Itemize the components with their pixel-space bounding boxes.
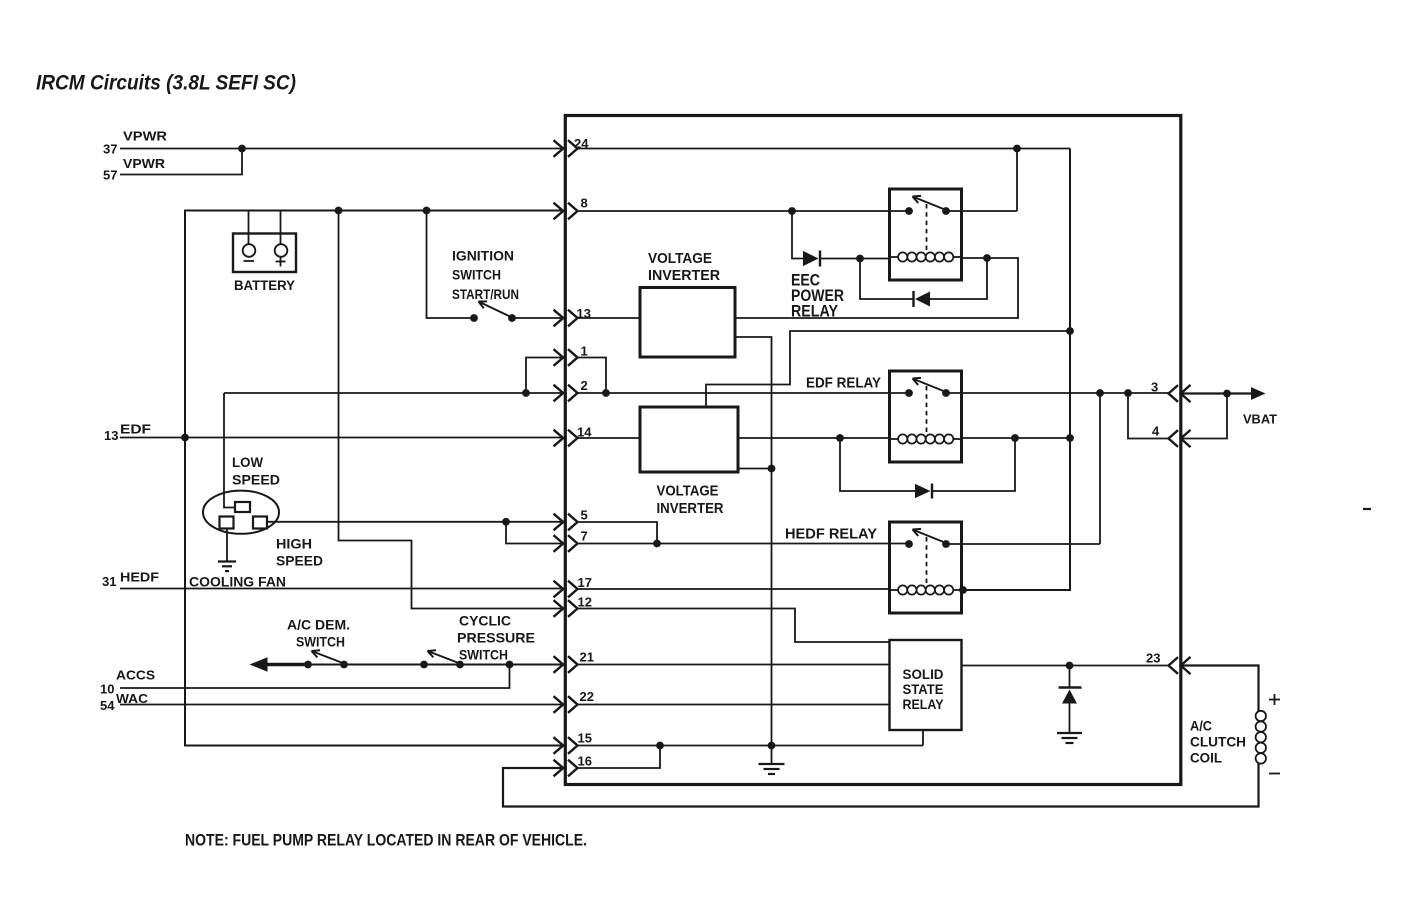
svg-text:17: 17 (578, 575, 592, 590)
svg-text:EDF RELAY: EDF RELAY (806, 376, 881, 392)
svg-text:14: 14 (577, 425, 592, 440)
svg-text:SWITCH: SWITCH (296, 634, 345, 650)
svg-text:13: 13 (577, 306, 591, 321)
svg-text:16: 16 (578, 754, 592, 769)
svg-text:LOW: LOW (232, 454, 264, 470)
svg-text:HEDF RELAY: HEDF RELAY (785, 527, 877, 543)
svg-text:4: 4 (1152, 424, 1160, 439)
svg-text:COIL: COIL (1190, 751, 1222, 766)
svg-text:2: 2 (581, 378, 588, 393)
svg-text:PRESSURE: PRESSURE (457, 630, 535, 646)
svg-text:12: 12 (578, 595, 592, 610)
svg-text:SPEED: SPEED (276, 553, 323, 569)
svg-text:10: 10 (100, 682, 114, 697)
svg-text:15: 15 (578, 731, 592, 746)
svg-text:1: 1 (581, 344, 588, 359)
svg-text:RELAY: RELAY (791, 303, 838, 321)
svg-text:START/RUN: START/RUN (452, 286, 519, 302)
svg-text:VPWR: VPWR (123, 129, 168, 144)
svg-text:HIGH: HIGH (276, 536, 312, 552)
svg-text:13: 13 (104, 428, 118, 443)
svg-text:WAC: WAC (116, 691, 149, 706)
svg-text:SOLID: SOLID (903, 666, 944, 682)
svg-text:CYCLIC: CYCLIC (459, 613, 511, 629)
svg-text:SWITCH: SWITCH (459, 647, 508, 663)
svg-text:57: 57 (103, 168, 117, 183)
svg-text:8: 8 (581, 196, 588, 211)
svg-text:7: 7 (581, 529, 588, 544)
svg-text:INVERTER: INVERTER (648, 267, 720, 284)
svg-text:IRCM Circuits (3.8L SEFI SC): IRCM Circuits (3.8L SEFI SC) (36, 72, 296, 95)
svg-text:STATE: STATE (903, 681, 944, 697)
svg-text:HEDF: HEDF (120, 570, 159, 585)
svg-text:VOLTAGE: VOLTAGE (657, 483, 719, 500)
svg-text:INVERTER: INVERTER (657, 500, 724, 517)
svg-text:VOLTAGE: VOLTAGE (648, 250, 712, 267)
svg-text:3: 3 (1151, 380, 1158, 395)
svg-text:RELAY: RELAY (903, 696, 945, 712)
svg-text:37: 37 (103, 142, 117, 157)
svg-text:23: 23 (1146, 651, 1160, 666)
svg-text:A/C DEM.: A/C DEM. (287, 617, 350, 633)
svg-text:5: 5 (581, 508, 588, 523)
svg-text:COOLING FAN: COOLING FAN (189, 574, 286, 590)
svg-text:IGNITION: IGNITION (452, 248, 514, 264)
svg-text:22: 22 (580, 689, 594, 704)
svg-text:EDF: EDF (120, 422, 151, 437)
svg-text:CLUTCH: CLUTCH (1190, 735, 1246, 750)
svg-text:SWITCH: SWITCH (452, 267, 501, 283)
svg-text:VPWR: VPWR (123, 156, 166, 171)
svg-text:21: 21 (580, 650, 594, 665)
svg-text:24: 24 (574, 136, 589, 151)
svg-text:A/C: A/C (1190, 719, 1212, 734)
svg-text:31: 31 (102, 574, 116, 589)
svg-text:54: 54 (100, 698, 115, 713)
svg-text:BATTERY: BATTERY (234, 278, 295, 293)
svg-text:NOTE: FUEL PUMP RELAY LOCATED: NOTE: FUEL PUMP RELAY LOCATED IN REAR OF… (185, 831, 587, 850)
svg-text:SPEED: SPEED (232, 472, 280, 488)
svg-text:ACCS: ACCS (116, 668, 155, 683)
svg-text:VBAT: VBAT (1243, 412, 1277, 427)
